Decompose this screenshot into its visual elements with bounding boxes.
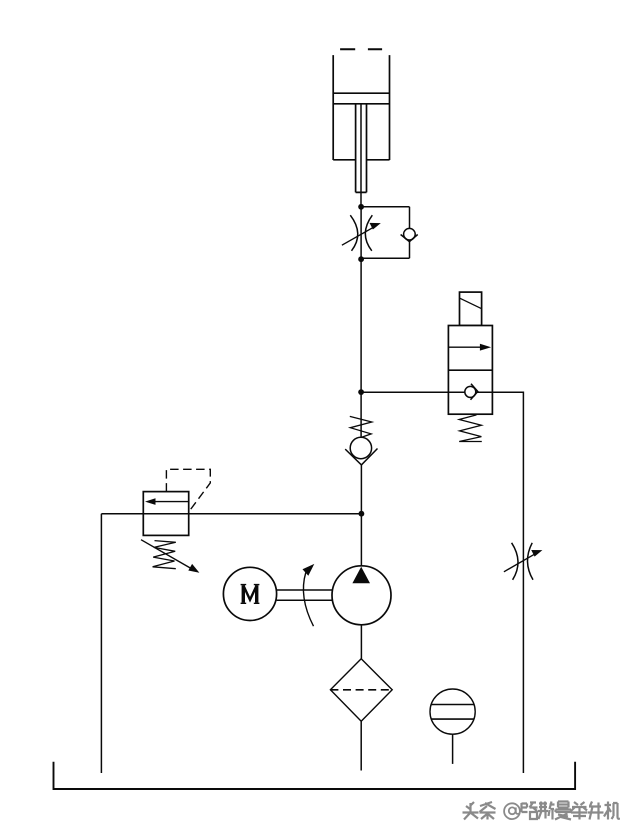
relief valve adjust arrow — [141, 540, 199, 573]
motor shaft — [277, 590, 332, 600]
level gauge stem — [452, 734, 454, 764]
pump circle — [332, 566, 391, 625]
pump triangle — [352, 567, 370, 583]
watermark 曼 — [555, 802, 571, 820]
motor letter M — [241, 585, 260, 604]
left return line — [100, 514, 102, 773]
relief valve pilot dashed line — [166, 469, 210, 512]
watermark 升 — [588, 802, 604, 820]
relief valve line — [101, 513, 361, 515]
relief valve spring — [153, 541, 176, 569]
solenoid valve spring — [459, 415, 482, 442]
rotation arc — [303, 564, 315, 626]
wire pump to filter — [360, 625, 362, 659]
watermark 举 — [571, 802, 588, 820]
solenoid valve flow arrow — [448, 344, 491, 351]
bypass check valve — [401, 228, 418, 241]
wire into check valve spring — [360, 392, 362, 437]
solenoid coil box — [460, 292, 482, 325]
watermark 头 — [463, 802, 479, 820]
flow control adjust arrow — [342, 223, 381, 245]
filter suction pipe — [360, 721, 362, 770]
bypass wire bottom — [361, 257, 409, 259]
cylinder (ram) body — [333, 49, 389, 160]
tank — [54, 762, 576, 789]
node C junction dot — [358, 389, 364, 395]
right throttle arcs — [512, 543, 533, 580]
check valve seat — [345, 449, 377, 465]
watermark 路 — [522, 803, 538, 820]
bypass wire right — [409, 207, 411, 258]
wire check valve to node D — [360, 465, 362, 514]
node B junction dot — [358, 256, 364, 262]
relief valve body — [143, 492, 188, 536]
wire node C to solenoid valve — [361, 391, 448, 393]
filter diamond — [330, 659, 392, 722]
watermark @ — [504, 803, 520, 819]
right throttle adjust arrow — [504, 550, 543, 572]
wire rod center to node A — [360, 105, 362, 207]
wire node B to node C — [360, 259, 362, 392]
bypass wire top — [361, 206, 409, 208]
watermark 条 — [480, 802, 496, 820]
relief valve internal arrow — [145, 498, 188, 505]
cylinder plunger rod — [356, 104, 367, 193]
level gauge circle — [430, 689, 475, 734]
wire valve to right drop — [492, 392, 523, 773]
check valve ball — [350, 437, 371, 458]
node A junction dot — [358, 204, 364, 210]
watermark 斯 — [538, 802, 555, 820]
node D junction dot — [359, 511, 365, 517]
solenoid valve check position — [448, 384, 492, 400]
flow control throttle arcs — [350, 215, 372, 251]
wire node D to pump — [360, 514, 362, 566]
motor circle — [223, 567, 276, 620]
wire node A down through throttle — [360, 207, 362, 259]
solenoid valve body — [448, 326, 492, 415]
watermark 机 — [604, 802, 620, 820]
check valve spring — [350, 416, 372, 437]
